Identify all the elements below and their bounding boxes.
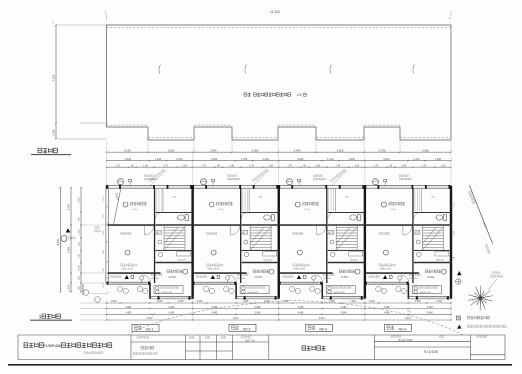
svg-text:1.105: 1.105 <box>243 301 249 303</box>
svg-text:UB1318: UB1318 <box>178 260 187 262</box>
stair landing symbol <box>158 240 162 244</box>
stairs unit 2 <box>250 225 271 251</box>
svg-text:3.960: 3.960 <box>125 306 132 309</box>
svg-text:1.165: 1.165 <box>79 228 81 234</box>
legend triangle <box>457 325 461 329</box>
bath unit <box>263 252 277 257</box>
svg-text:1.40: 1.40 <box>143 164 148 167</box>
window tag <box>413 231 420 235</box>
svg-text:4.485: 4.485 <box>298 312 305 315</box>
vent door note <box>409 273 420 276</box>
party wall at x=193 <box>191 186 193 299</box>
svg-text:W17: W17 <box>414 232 419 234</box>
room2 label <box>383 250 388 255</box>
toilet unit 1 <box>178 215 185 220</box>
svg-text:1.105: 1.105 <box>415 301 421 303</box>
party wall at x=451 <box>450 186 452 299</box>
room3 label <box>167 270 182 273</box>
left entrance mark <box>66 228 71 232</box>
step wall to lower bottom <box>408 283 410 299</box>
room1 label <box>123 202 128 207</box>
stairwell bottom wall <box>242 250 279 252</box>
svg-text:10.59m: 10.59m <box>169 277 177 279</box>
stairs unit 4 <box>422 225 443 251</box>
svg-text:1.20: 1.20 <box>268 164 273 167</box>
svg-text:S=1/100: S=1/100 <box>424 350 438 354</box>
door arc room1 <box>231 226 240 235</box>
north compass star <box>468 286 493 311</box>
washroom bottom wall <box>414 262 451 264</box>
door arc room1 <box>145 226 154 235</box>
dimension extension verticals below plan <box>106 300 108 321</box>
washroom bottom wall <box>328 262 365 264</box>
stairwell bottom wall <box>156 250 193 252</box>
laundry note box <box>412 286 441 294</box>
step wall to lower bottom <box>321 283 323 299</box>
washbasin <box>330 252 335 257</box>
plan upper dim row 1 <box>106 158 452 162</box>
dwelling unit 1 <box>106 185 194 300</box>
closet <box>156 189 158 212</box>
entrance mark <box>211 275 215 279</box>
party wall at x=279 <box>278 186 280 299</box>
svg-text:H4B5+H223: H4B5+H223 <box>208 268 220 270</box>
title block frame <box>18 335 505 360</box>
stair landing symbol <box>416 240 420 244</box>
window tag <box>155 231 162 235</box>
sloped wall diagonal in unit 1 <box>114 188 122 225</box>
svg-text:1.75: 1.75 <box>163 164 168 167</box>
svg-text:3.750: 3.750 <box>68 203 71 210</box>
interior wall A <box>154 188 155 283</box>
roof eave castellated bottom edge <box>107 127 452 140</box>
svg-text:2.460: 2.460 <box>341 306 348 309</box>
boundary label <box>468 191 475 204</box>
toilet unit 2 <box>264 215 271 220</box>
compass note <box>493 272 500 274</box>
window tag <box>327 231 334 235</box>
entrance mark <box>125 275 129 279</box>
svg-text:2.460: 2.460 <box>168 306 175 309</box>
step wall to lower bottom <box>149 283 151 299</box>
svg-text:3.960: 3.960 <box>384 306 391 309</box>
roof left vertical dimension <box>52 24 107 140</box>
slope note unit1 <box>115 193 119 200</box>
svg-text:3.900: 3.900 <box>422 148 429 152</box>
ticks along plan right wall <box>450 188 455 294</box>
dwelling unit 2 <box>192 185 280 300</box>
door note <box>293 232 303 234</box>
cell number2 <box>391 335 401 337</box>
svg-text:1.100: 1.100 <box>68 284 71 291</box>
svg-text:2.940: 2.940 <box>210 148 217 152</box>
note near left wall <box>95 227 99 229</box>
svg-text:3.940: 3.940 <box>427 312 434 315</box>
WC wall <box>328 212 365 214</box>
room3 label <box>253 270 268 273</box>
svg-text:7.280: 7.280 <box>52 74 56 81</box>
symbols below left bottom wall <box>376 286 381 291</box>
svg-text:3.145: 3.145 <box>124 148 131 152</box>
washroom bottom wall <box>156 262 193 264</box>
wall below room 1 <box>366 224 413 226</box>
svg-text:945: 945 <box>454 256 456 259</box>
stair landing symbol <box>244 240 248 244</box>
svg-text:1.75: 1.75 <box>335 164 340 167</box>
cell design number <box>241 336 251 338</box>
room2 label <box>125 250 130 255</box>
svg-text:W17: W17 <box>242 232 247 234</box>
unit number labels <box>132 324 159 331</box>
svg-text:3.640: 3.640 <box>125 158 132 161</box>
svg-text:2.030: 2.030 <box>263 158 270 161</box>
svg-text:N0-2: N0-2 <box>243 327 250 331</box>
svg-text:N0-1: N0-1 <box>146 327 153 331</box>
svg-text:1.70: 1.70 <box>201 164 206 167</box>
svg-text:10.59m: 10.59m <box>341 277 349 279</box>
bottom wall right part <box>150 296 193 298</box>
door note <box>379 232 389 234</box>
stairwell top wall <box>156 224 193 226</box>
extension verticals roof eave to dim row <box>106 141 108 151</box>
svg-text:3.660: 3.660 <box>337 148 344 152</box>
bottom wall left part <box>107 281 151 283</box>
window tag <box>241 231 248 235</box>
svg-text:1.70: 1.70 <box>115 164 120 167</box>
svg-text:H=800+650: H=800+650 <box>162 292 174 294</box>
toilet unit 3 <box>350 215 357 220</box>
room2 label <box>211 250 216 255</box>
door arc room1 <box>403 226 412 235</box>
door arc entrance <box>229 275 237 283</box>
roof plan outline <box>107 25 452 140</box>
stairwell bottom wall <box>328 250 365 252</box>
plan upper dim row 2 <box>106 164 452 168</box>
vent door note <box>237 273 248 276</box>
top wall window jambs <box>192 185 194 189</box>
svg-text:W17: W17 <box>156 232 161 234</box>
plan lower dim row 2 <box>106 306 452 310</box>
stairwell top wall <box>242 224 279 226</box>
svg-text:10.59m: 10.59m <box>427 277 435 279</box>
svg-text:1.300: 1.300 <box>178 301 184 303</box>
svg-text:2.040: 2.040 <box>197 301 203 303</box>
svg-text:1.40: 1.40 <box>402 164 407 167</box>
svg-text:H=800+650: H=800+650 <box>420 292 432 294</box>
WC wall <box>156 212 193 214</box>
entrance mark <box>297 275 301 279</box>
wall below room 1 <box>280 224 327 226</box>
roof material note <box>244 93 251 96</box>
svg-text:745: 745 <box>103 268 105 271</box>
roof slope direction marks <box>159 65 161 74</box>
roof eave dimension row <box>106 148 452 153</box>
svg-text:10.59m: 10.59m <box>255 277 263 279</box>
wall below room 1 <box>108 224 155 226</box>
svg-text:005.7.06: 005.7.06 <box>245 340 255 343</box>
svg-text:(-0.5m): (-0.5m) <box>390 209 397 211</box>
svg-text:UB1318: UB1318 <box>350 260 359 262</box>
svg-text:1.100: 1.100 <box>79 264 81 270</box>
bottom wall right part <box>408 296 451 298</box>
bottom wall right part <box>322 296 365 298</box>
top wall window jambs <box>106 185 108 189</box>
interior wall A <box>240 188 241 283</box>
svg-text:H=800+650: H=800+650 <box>248 292 260 294</box>
legend text 2 <box>468 325 507 328</box>
room1 label <box>295 202 300 207</box>
right symbol <box>456 279 461 284</box>
svg-text:3.940: 3.940 <box>341 312 348 315</box>
WC wall <box>414 212 451 214</box>
bath unit <box>349 252 363 257</box>
svg-text:1.300: 1.300 <box>350 301 356 303</box>
left note bubble <box>61 236 67 242</box>
svg-text:2.460: 2.460 <box>254 306 261 309</box>
svg-text:2.030: 2.030 <box>176 158 183 161</box>
svg-text:1.190: 1.190 <box>52 129 56 136</box>
company name <box>24 343 43 348</box>
door note <box>121 232 131 234</box>
diagonal leader notes above plan <box>149 169 165 182</box>
fusuma note + entrance mark <box>369 275 379 277</box>
door arc wc <box>328 213 334 219</box>
closet <box>414 189 416 212</box>
cell project <box>137 336 149 338</box>
svg-text:2.165: 2.165 <box>454 231 456 236</box>
cells tanto/kenzu/shonin <box>190 336 195 338</box>
door arc entrance <box>143 275 151 283</box>
svg-text:1.70: 1.70 <box>287 164 292 167</box>
dimension extension verticals above plan <box>106 150 108 186</box>
washbasin <box>244 252 249 257</box>
party wall at x=365 <box>364 186 366 299</box>
symbols below left bottom wall <box>203 286 208 291</box>
legend text 1 <box>468 316 490 319</box>
svg-text:8.440: 8.440 <box>56 238 60 245</box>
svg-text:(Py-a5 07040): (Py-a5 07040) <box>398 340 413 342</box>
svg-text:(-0.5m): (-0.5m) <box>132 209 139 211</box>
drawing title cell <box>302 346 325 350</box>
window glazing lines <box>294 186 325 188</box>
top wall window jambs <box>364 185 366 189</box>
svg-text:1.40: 1.40 <box>315 164 320 167</box>
svg-text:W17: W17 <box>328 232 333 234</box>
svg-text:W2=605: W2=605 <box>237 278 246 280</box>
svg-text:1.70: 1.70 <box>374 164 379 167</box>
right cell <box>477 335 487 337</box>
room1 label <box>209 202 214 207</box>
svg-text:870: 870 <box>103 214 105 217</box>
svg-text:1.40: 1.40 <box>229 164 234 167</box>
svg-text:1.75: 1.75 <box>249 164 254 167</box>
window glazing lines <box>122 186 153 188</box>
floor plan outer top wall <box>107 185 452 187</box>
symbols below left bottom wall <box>117 286 122 291</box>
svg-text:1.310: 1.310 <box>327 158 334 161</box>
svg-text:1.105: 1.105 <box>156 301 162 303</box>
roof plan title <box>38 148 57 153</box>
door arc wc <box>414 213 420 219</box>
svg-text:N0-3: N0-3 <box>320 327 327 331</box>
svg-text:1.150: 1.150 <box>103 197 105 202</box>
plan lower dim row 4 (totals) <box>106 317 452 321</box>
svg-text:1.310: 1.310 <box>241 158 248 161</box>
svg-text:4.485: 4.485 <box>211 312 218 315</box>
room2 label <box>297 250 302 255</box>
washroom bottom wall <box>242 262 279 264</box>
roof eave dashed lines <box>107 124 149 126</box>
door arc room1 <box>317 226 326 235</box>
svg-text:2.450: 2.450 <box>68 246 71 253</box>
stairwell bottom wall <box>414 250 451 252</box>
plan lower dim row 3 <box>106 312 452 316</box>
svg-text:1.155: 1.155 <box>79 196 81 202</box>
svg-text:2.040: 2.040 <box>283 301 289 303</box>
svg-text:W2=605: W2=605 <box>151 278 160 280</box>
symbols below left bottom wall <box>290 286 295 291</box>
room1 label <box>381 202 386 207</box>
WC wall <box>242 212 279 214</box>
svg-text:4.607: 4.607 <box>319 317 326 320</box>
svg-text:1.20: 1.20 <box>354 164 359 167</box>
svg-text:2.460: 2.460 <box>427 306 434 309</box>
svg-text:4.607: 4.607 <box>233 317 240 320</box>
svg-text:H4B5+H223: H4B5+H223 <box>294 268 306 270</box>
svg-text:UB1318: UB1318 <box>436 260 445 262</box>
step wall to lower bottom <box>235 283 237 299</box>
door note <box>207 232 217 234</box>
floor plan left outer wall <box>105 186 107 283</box>
svg-text:N0-4: N0-4 <box>399 327 406 331</box>
svg-text:2.040: 2.040 <box>111 301 117 303</box>
dwelling unit 4 <box>364 185 452 300</box>
svg-text:(-0.5m): (-0.5m) <box>218 209 225 211</box>
window glazing lines <box>208 186 239 188</box>
svg-text:1.310: 1.310 <box>155 158 162 161</box>
stairwell top wall <box>328 224 365 226</box>
svg-text:3.640: 3.640 <box>383 158 390 161</box>
svg-text:2.940: 2.940 <box>294 148 301 152</box>
toilet unit 4 <box>436 215 443 220</box>
washbasin <box>158 252 163 257</box>
fusuma note + entrance mark <box>283 275 293 277</box>
laundry note box <box>240 286 269 294</box>
svg-text:H=800+650: H=800+650 <box>334 292 346 294</box>
bath unit <box>435 252 449 257</box>
svg-text:2.030: 2.030 <box>349 158 356 161</box>
site boundary diagonal line <box>470 186 493 244</box>
svg-text:2.790: 2.790 <box>379 148 386 152</box>
fusuma note + entrance mark <box>111 275 121 277</box>
right entrance mark <box>457 271 462 275</box>
svg-text:3.660: 3.660 <box>168 148 175 152</box>
bottom wall right part <box>236 296 279 298</box>
bottom wall left part <box>193 281 237 283</box>
svg-text:4.485: 4.485 <box>125 312 132 315</box>
washbasin <box>417 252 422 257</box>
stairs unit 1 <box>164 225 185 251</box>
legend hatch box <box>456 316 460 320</box>
sheet bottom heavy line <box>8 364 512 366</box>
svg-text:2.5: 2.5 <box>297 93 302 97</box>
svg-text:21.300: 21.300 <box>270 10 280 14</box>
svg-text:1.300: 1.300 <box>436 301 442 303</box>
fusuma note + entrance mark <box>197 275 207 277</box>
svg-text:3.960: 3.960 <box>298 306 305 309</box>
floor plan left dimension stack <box>56 187 106 293</box>
svg-text:1.310: 1.310 <box>413 158 420 161</box>
stairs unit 3 <box>336 225 357 251</box>
interior wall A <box>326 188 327 283</box>
svg-text:1.20: 1.20 <box>441 164 446 167</box>
interior wall A <box>412 188 413 283</box>
company sub line <box>84 352 103 354</box>
door arc entrance <box>315 275 323 283</box>
svg-text:4.607: 4.607 <box>405 317 412 320</box>
svg-text:4.607: 4.607 <box>147 317 154 320</box>
room3 label <box>339 270 354 273</box>
bottom-left key circles <box>83 290 89 296</box>
ticks along plan left wall <box>103 188 108 294</box>
laundry note box <box>326 286 355 294</box>
svg-text:3.940: 3.940 <box>168 312 175 315</box>
svg-text:1.75: 1.75 <box>422 164 427 167</box>
wall below room 1 <box>194 224 241 226</box>
vent door note <box>323 273 334 276</box>
wall below room 2 <box>194 272 247 274</box>
plan lower dim row 1 <box>106 301 452 304</box>
closet <box>242 189 244 212</box>
room3 label <box>425 270 440 273</box>
svg-text:H4B5+H223: H4B5+H223 <box>122 268 134 270</box>
wall below room 2 <box>108 272 161 274</box>
svg-text:1.165: 1.165 <box>103 231 105 236</box>
svg-text:2.030: 2.030 <box>435 158 442 161</box>
svg-text:3.550: 3.550 <box>252 148 259 152</box>
svg-text:H4B5+H223: H4B5+H223 <box>380 268 392 270</box>
stair landing symbol <box>330 240 334 244</box>
vent door note <box>151 273 162 276</box>
svg-text:W2=605: W2=605 <box>409 278 418 280</box>
party wall note bubbles above plan <box>118 179 124 185</box>
svg-text:UB1318: UB1318 <box>264 260 273 262</box>
door arc wc <box>156 213 162 219</box>
svg-text:2.040: 2.040 <box>369 301 375 303</box>
svg-text:1.100: 1.100 <box>103 284 105 289</box>
svg-text:3.640: 3.640 <box>297 158 304 161</box>
svg-text:4.485: 4.485 <box>384 312 391 315</box>
svg-text:(-0.5m): (-0.5m) <box>304 209 311 211</box>
setback dashed arc <box>127 301 464 336</box>
svg-text:1.150: 1.150 <box>454 203 456 208</box>
door arc wc <box>242 213 248 219</box>
svg-text:3.640: 3.640 <box>211 158 218 161</box>
svg-text:945: 945 <box>103 250 105 253</box>
svg-text:3.940: 3.940 <box>254 312 261 315</box>
stairwell top wall <box>414 224 451 226</box>
dwelling unit 3 <box>278 185 366 300</box>
door arc entrance <box>401 275 409 283</box>
window glazing lines <box>380 186 411 188</box>
bath unit <box>177 252 191 257</box>
wall below room 2 <box>366 272 419 274</box>
roof ridge dashed line <box>107 27 452 29</box>
wall below room 2 <box>280 272 333 274</box>
svg-text:W2=605: W2=605 <box>323 278 332 280</box>
closet <box>328 189 330 212</box>
svg-text:1.20: 1.20 <box>182 164 187 167</box>
